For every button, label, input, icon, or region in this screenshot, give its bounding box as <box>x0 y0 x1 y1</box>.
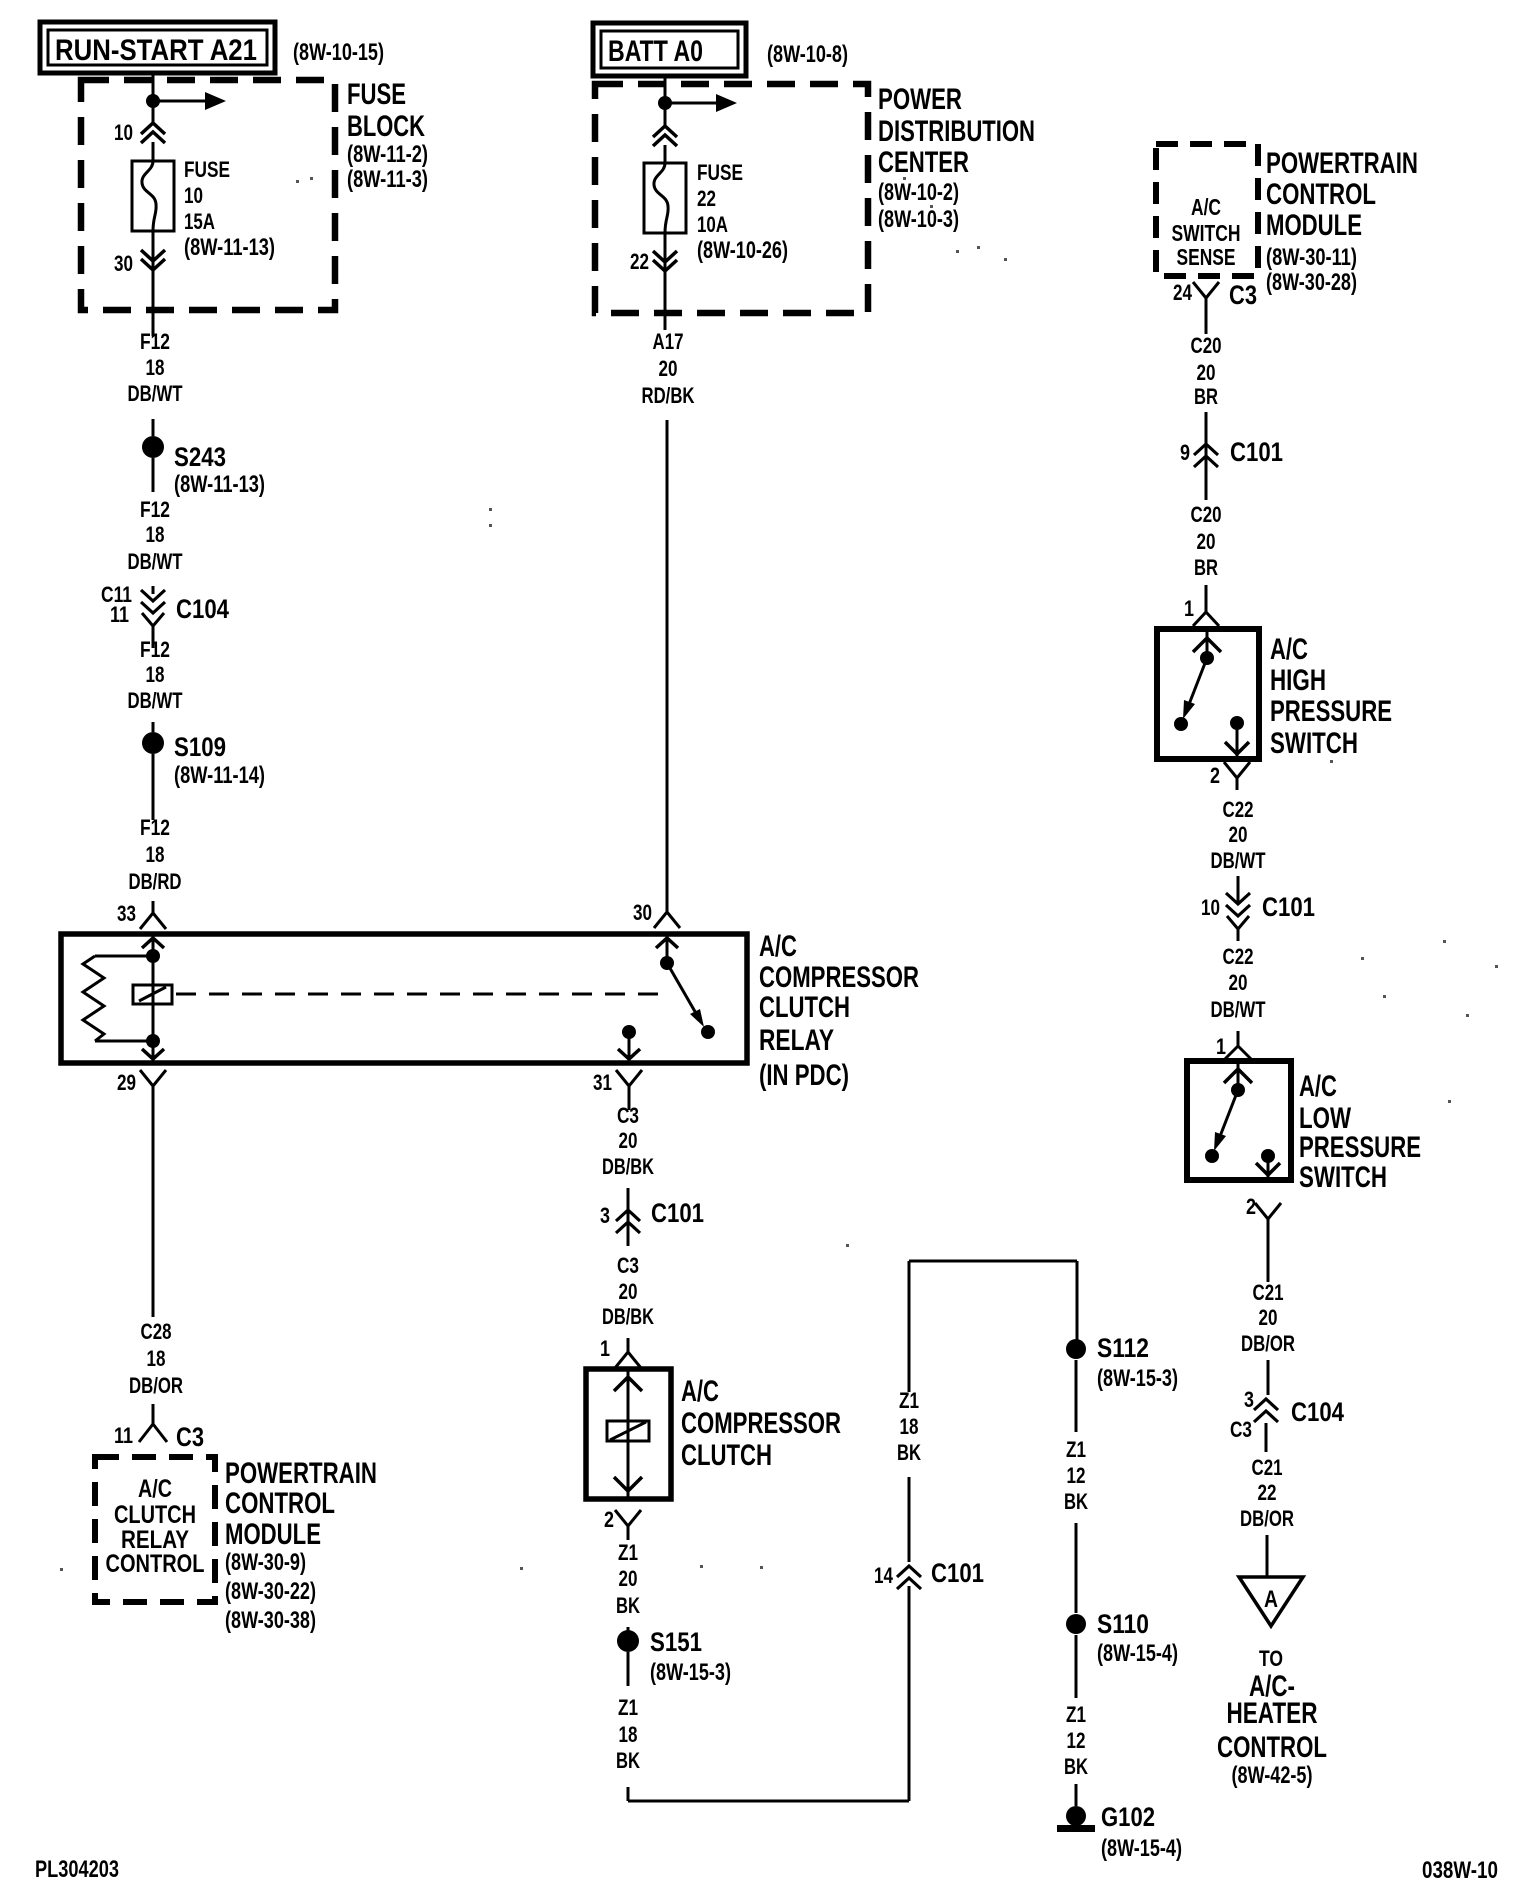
svg-text:C104: C104 <box>176 594 229 624</box>
svg-text:(8W-30-22): (8W-30-22) <box>225 1578 316 1605</box>
svg-text:POWERTRAIN: POWERTRAIN <box>1266 147 1418 180</box>
svg-text:(8W-15-3): (8W-15-3) <box>650 1659 731 1686</box>
svg-text:C3: C3 <box>617 1103 639 1128</box>
svg-text:Z1: Z1 <box>1066 1437 1086 1462</box>
svg-text:3: 3 <box>600 1203 610 1228</box>
svg-text:BK: BK <box>1064 1489 1088 1514</box>
svg-text:C3: C3 <box>617 1253 639 1278</box>
svg-text:F12: F12 <box>140 329 170 354</box>
svg-text:C21: C21 <box>1253 1280 1284 1305</box>
svg-text:DISTRIBUTION: DISTRIBUTION <box>878 115 1035 148</box>
svg-text:29: 29 <box>117 1070 136 1095</box>
svg-text:(8W-10-3): (8W-10-3) <box>878 206 959 233</box>
svg-text:(8W-10-26): (8W-10-26) <box>697 237 788 264</box>
svg-text:20: 20 <box>619 1566 638 1591</box>
svg-text:24: 24 <box>1173 280 1193 305</box>
svg-text:11: 11 <box>110 602 129 627</box>
svg-text:CLUTCH: CLUTCH <box>759 991 850 1024</box>
svg-text:DB/WT: DB/WT <box>128 549 183 574</box>
svg-text:Z1: Z1 <box>1066 1702 1086 1727</box>
svg-text:1: 1 <box>1184 596 1194 621</box>
svg-text:F12: F12 <box>140 815 170 840</box>
svg-text:MODULE: MODULE <box>225 1518 321 1551</box>
svg-text:18: 18 <box>146 842 165 867</box>
svg-text:C101: C101 <box>1262 892 1315 922</box>
svg-text:DB/WT: DB/WT <box>1211 848 1266 873</box>
svg-text:(8W-30-9): (8W-30-9) <box>225 1549 306 1576</box>
svg-text:C20: C20 <box>1191 333 1222 358</box>
svg-text:(8W-15-4): (8W-15-4) <box>1101 1835 1182 1862</box>
svg-text:SWITCH: SWITCH <box>1299 1161 1387 1194</box>
svg-text:C101: C101 <box>1230 437 1283 467</box>
svg-text:FUSE: FUSE <box>347 78 406 111</box>
svg-text:20: 20 <box>1197 529 1216 554</box>
svg-text:A/C: A/C <box>759 930 797 963</box>
svg-text:C104: C104 <box>1291 1397 1344 1427</box>
svg-text:14: 14 <box>874 1563 894 1588</box>
svg-text:(8W-11-13): (8W-11-13) <box>174 471 265 498</box>
svg-text:20: 20 <box>619 1128 638 1153</box>
svg-text:1: 1 <box>600 1336 610 1361</box>
svg-text:CONTROL: CONTROL <box>1217 1731 1327 1764</box>
svg-text:S110: S110 <box>1097 1609 1149 1639</box>
svg-text:(8W-30-28): (8W-30-28) <box>1266 269 1357 296</box>
svg-text:(8W-10-8): (8W-10-8) <box>767 41 848 68</box>
svg-text:S243: S243 <box>174 442 226 472</box>
svg-text:CONTROL: CONTROL <box>1266 178 1376 211</box>
svg-text:CONTROL: CONTROL <box>225 1487 335 1520</box>
svg-text:DB/BK: DB/BK <box>602 1304 654 1329</box>
svg-text:C101: C101 <box>651 1198 704 1228</box>
svg-text:S109: S109 <box>174 732 226 762</box>
svg-text:DB/WT: DB/WT <box>1211 997 1266 1022</box>
svg-text:TO: TO <box>1259 1646 1283 1671</box>
svg-text:C3: C3 <box>1230 1417 1252 1442</box>
svg-text:C22: C22 <box>1223 797 1254 822</box>
svg-text:(8W-30-38): (8W-30-38) <box>225 1607 316 1634</box>
svg-text:15A: 15A <box>184 209 215 234</box>
svg-text:POWER: POWER <box>878 83 962 116</box>
svg-text:CLUTCH: CLUTCH <box>114 1501 196 1529</box>
svg-text:31: 31 <box>593 1070 612 1095</box>
svg-text:SWITCH: SWITCH <box>1172 220 1241 246</box>
svg-text:30: 30 <box>114 251 133 276</box>
svg-text:DB/OR: DB/OR <box>1241 1331 1295 1356</box>
svg-text:BK: BK <box>897 1440 921 1465</box>
svg-text:A/C: A/C <box>1299 1070 1337 1103</box>
svg-text:11: 11 <box>114 1423 133 1448</box>
svg-text:G102: G102 <box>1101 1802 1155 1832</box>
svg-text:S112: S112 <box>1097 1333 1149 1363</box>
svg-text:Z1: Z1 <box>899 1388 919 1413</box>
svg-text:F12: F12 <box>140 637 170 662</box>
svg-text:DB/WT: DB/WT <box>128 381 183 406</box>
svg-text:C22: C22 <box>1223 944 1254 969</box>
svg-text:A/C: A/C <box>1191 194 1221 220</box>
svg-text:18: 18 <box>146 662 165 687</box>
svg-text:2: 2 <box>604 1507 614 1532</box>
svg-text:20: 20 <box>1197 360 1216 385</box>
svg-text:MODULE: MODULE <box>1266 209 1362 242</box>
svg-text:BATT A0: BATT A0 <box>608 35 703 68</box>
svg-text:PRESSURE: PRESSURE <box>1270 695 1392 728</box>
svg-text:20: 20 <box>1229 822 1248 847</box>
svg-text:22: 22 <box>697 186 716 211</box>
svg-text:A17: A17 <box>653 329 684 354</box>
svg-text:A/C: A/C <box>1270 633 1308 666</box>
svg-text:(IN PDC): (IN PDC) <box>759 1059 849 1092</box>
svg-text:20: 20 <box>619 1279 638 1304</box>
svg-text:RUN-START A21: RUN-START A21 <box>55 34 257 67</box>
svg-text:9: 9 <box>1180 440 1190 465</box>
svg-text:C20: C20 <box>1191 502 1222 527</box>
svg-text:3: 3 <box>1244 1387 1254 1412</box>
svg-text:12: 12 <box>1067 1463 1086 1488</box>
svg-text:30: 30 <box>633 900 652 925</box>
svg-text:DB/WT: DB/WT <box>128 688 183 713</box>
svg-text:DB/BK: DB/BK <box>602 1154 654 1179</box>
svg-text:BR: BR <box>1194 384 1218 409</box>
svg-text:18: 18 <box>900 1414 919 1439</box>
svg-text:(8W-15-3): (8W-15-3) <box>1097 1365 1178 1392</box>
svg-text:COMPRESSOR: COMPRESSOR <box>681 1407 841 1440</box>
svg-text:20: 20 <box>1229 970 1248 995</box>
svg-text:10A: 10A <box>697 212 728 237</box>
svg-text:HIGH: HIGH <box>1270 664 1326 697</box>
svg-text:C101: C101 <box>931 1558 984 1588</box>
svg-text:(8W-30-11): (8W-30-11) <box>1266 244 1357 271</box>
svg-text:18: 18 <box>146 522 165 547</box>
svg-text:BK: BK <box>1064 1754 1088 1779</box>
svg-text:POWERTRAIN: POWERTRAIN <box>225 1457 377 1490</box>
svg-text:BLOCK: BLOCK <box>347 110 425 143</box>
svg-text:2: 2 <box>1210 763 1220 788</box>
svg-text:(8W-15-4): (8W-15-4) <box>1097 1640 1178 1667</box>
svg-text:33: 33 <box>117 901 136 926</box>
svg-text:(8W-11-13): (8W-11-13) <box>184 234 275 261</box>
svg-text:(8W-11-3): (8W-11-3) <box>347 166 428 193</box>
svg-text:PRESSURE: PRESSURE <box>1299 1131 1421 1164</box>
svg-text:BR: BR <box>1194 555 1218 580</box>
svg-text:1: 1 <box>1216 1034 1226 1059</box>
svg-text:A/C: A/C <box>681 1375 719 1408</box>
svg-text:DB/RD: DB/RD <box>129 869 182 894</box>
svg-text:DB/OR: DB/OR <box>1240 1506 1294 1531</box>
svg-text:C3: C3 <box>176 1422 204 1452</box>
svg-text:(8W-11-14): (8W-11-14) <box>174 762 265 789</box>
svg-text:18: 18 <box>619 1722 638 1747</box>
svg-text:RD/BK: RD/BK <box>642 383 695 408</box>
svg-text:S151: S151 <box>650 1627 702 1657</box>
svg-text:SWITCH: SWITCH <box>1270 727 1358 760</box>
svg-text:18: 18 <box>147 1346 166 1371</box>
svg-text:(8W-10-2): (8W-10-2) <box>878 179 959 206</box>
svg-text:FUSE: FUSE <box>184 157 230 182</box>
svg-text:20: 20 <box>659 356 678 381</box>
svg-text:BK: BK <box>616 1593 640 1618</box>
svg-text:CONTROL: CONTROL <box>106 1550 205 1578</box>
svg-text:10: 10 <box>1201 895 1220 920</box>
svg-text:038W-10: 038W-10 <box>1422 1857 1498 1884</box>
svg-text:18: 18 <box>146 355 165 380</box>
svg-text:(8W-42-5): (8W-42-5) <box>1232 1762 1313 1789</box>
svg-text:FUSE: FUSE <box>697 160 743 185</box>
svg-text:10: 10 <box>114 120 133 145</box>
svg-text:12: 12 <box>1067 1728 1086 1753</box>
svg-text:A: A <box>1264 1586 1278 1613</box>
svg-text:PL304203: PL304203 <box>35 1856 119 1883</box>
svg-text:Z1: Z1 <box>618 1540 638 1565</box>
svg-text:22: 22 <box>1258 1480 1277 1505</box>
svg-text:CENTER: CENTER <box>878 146 969 179</box>
svg-text:Z1: Z1 <box>618 1695 638 1720</box>
svg-text:10: 10 <box>184 183 203 208</box>
svg-text:DB/OR: DB/OR <box>129 1373 183 1398</box>
svg-text:C3: C3 <box>1229 280 1257 310</box>
svg-text:20: 20 <box>1259 1305 1278 1330</box>
svg-text:SENSE: SENSE <box>1177 244 1236 270</box>
svg-text:HEATER: HEATER <box>1227 1697 1318 1730</box>
svg-text:COMPRESSOR: COMPRESSOR <box>759 961 919 994</box>
svg-text:(8W-11-2): (8W-11-2) <box>347 141 428 168</box>
svg-text:BK: BK <box>616 1748 640 1773</box>
svg-text:2: 2 <box>1246 1194 1256 1219</box>
svg-text:CLUTCH: CLUTCH <box>681 1439 772 1472</box>
svg-text:A/C: A/C <box>138 1475 172 1503</box>
svg-text:F12: F12 <box>140 497 170 522</box>
svg-text:RELAY: RELAY <box>759 1024 834 1057</box>
svg-text:C21: C21 <box>1252 1455 1283 1480</box>
svg-text:C28: C28 <box>141 1319 172 1344</box>
svg-text:22: 22 <box>630 249 649 274</box>
svg-text:(8W-10-15): (8W-10-15) <box>293 39 384 66</box>
